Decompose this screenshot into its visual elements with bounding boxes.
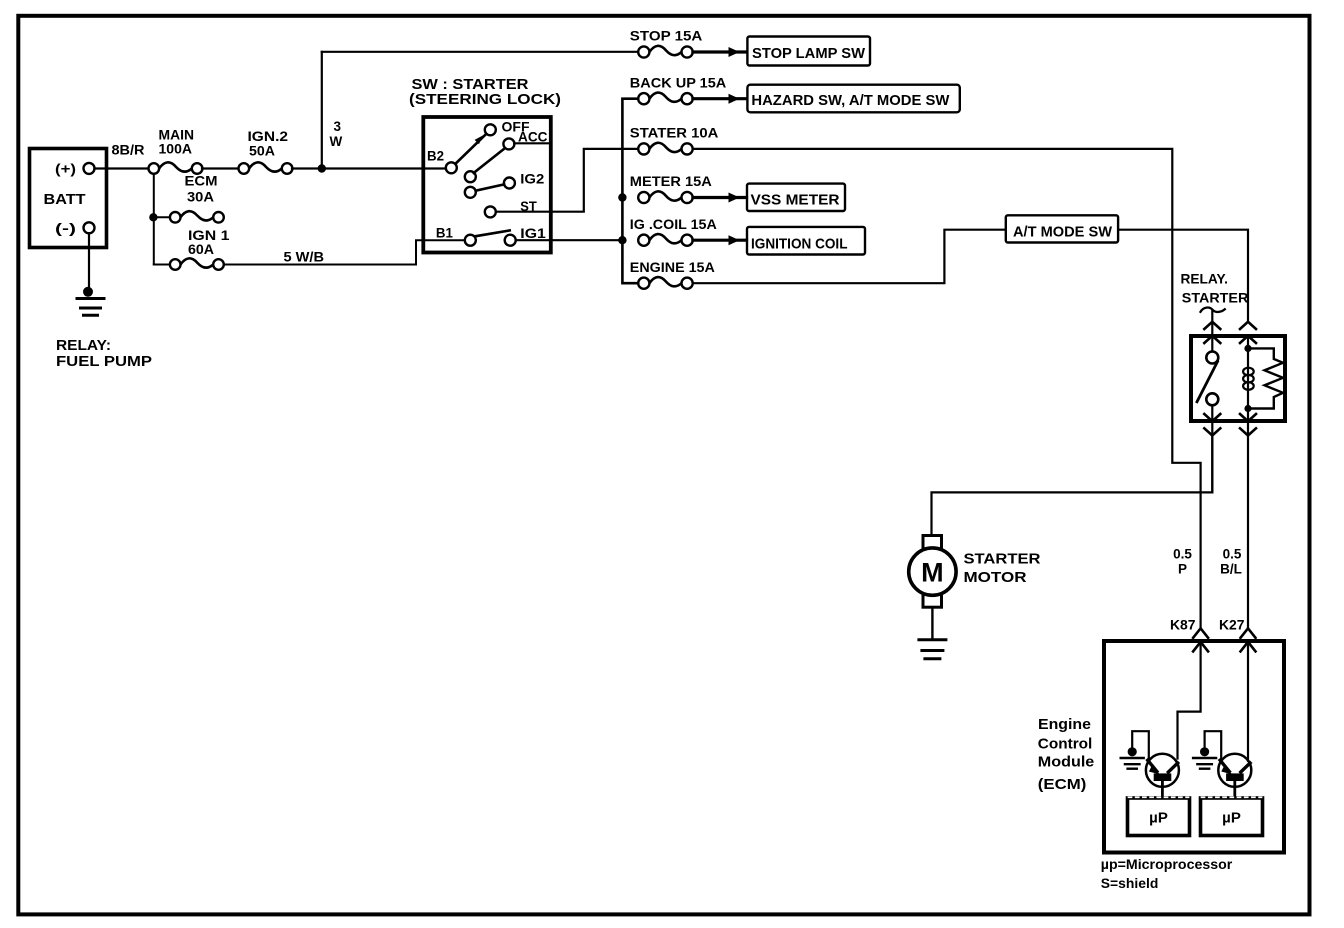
- svg-text:S=shield: S=shield: [1101, 875, 1159, 891]
- svg-text:RELAY:: RELAY:: [56, 337, 111, 354]
- svg-text:BATT: BATT: [44, 191, 86, 208]
- svg-text:µP: µP: [1149, 810, 1168, 827]
- svg-text:3: 3: [334, 119, 342, 134]
- svg-text:BACK UP 15A: BACK UP 15A: [630, 75, 727, 90]
- svg-text:B1: B1: [436, 226, 453, 241]
- svg-text:A/T MODE SW: A/T MODE SW: [1013, 224, 1113, 241]
- svg-text:M: M: [921, 558, 944, 588]
- svg-text:P: P: [1178, 562, 1187, 577]
- svg-text:ENGINE 15A: ENGINE 15A: [630, 260, 715, 275]
- svg-text:0.5: 0.5: [1173, 547, 1192, 562]
- svg-text:HAZARD SW, A/T MODE SW: HAZARD SW, A/T MODE SW: [751, 92, 950, 109]
- svg-text:STOP 15A: STOP 15A: [630, 29, 703, 44]
- svg-text:(ECM): (ECM): [1038, 776, 1087, 793]
- svg-text:Engine: Engine: [1038, 716, 1091, 733]
- svg-text:IG1: IG1: [520, 226, 546, 241]
- svg-text:µP: µP: [1222, 810, 1241, 827]
- svg-text:VSS METER: VSS METER: [751, 192, 840, 209]
- svg-text:IGNITION COIL: IGNITION COIL: [751, 236, 848, 253]
- svg-text:K27: K27: [1219, 617, 1245, 633]
- svg-text:50A: 50A: [249, 144, 275, 159]
- svg-text:µp=Microprocessor: µp=Microprocessor: [1101, 856, 1233, 872]
- svg-text:8B/R: 8B/R: [112, 143, 145, 158]
- svg-text:Module: Module: [1038, 754, 1095, 771]
- svg-text:STARTER: STARTER: [1182, 290, 1249, 306]
- svg-text:IG2: IG2: [520, 171, 544, 186]
- svg-text:MOTOR: MOTOR: [964, 569, 1027, 586]
- svg-text:Control: Control: [1038, 736, 1093, 753]
- svg-text:(+): (+): [55, 162, 76, 177]
- svg-text:B/L: B/L: [1220, 562, 1242, 577]
- svg-text:IG .COIL 15A: IG .COIL 15A: [630, 217, 717, 232]
- svg-text:0.5: 0.5: [1223, 547, 1242, 562]
- svg-text:ECM: ECM: [185, 174, 218, 189]
- svg-text:5 W/B: 5 W/B: [284, 250, 325, 265]
- svg-text:(STEERING LOCK): (STEERING LOCK): [409, 91, 561, 108]
- svg-text:RELAY.: RELAY.: [1181, 271, 1229, 287]
- svg-text:FUEL PUMP: FUEL PUMP: [56, 353, 152, 370]
- svg-text:MAIN: MAIN: [159, 128, 195, 143]
- svg-text:METER 15A: METER 15A: [630, 174, 712, 189]
- svg-text:(-): (-): [55, 221, 76, 236]
- svg-text:100A: 100A: [159, 142, 193, 157]
- svg-text:STARTER: STARTER: [964, 551, 1041, 568]
- svg-text:B2: B2: [427, 149, 444, 164]
- svg-text:K87: K87: [1170, 617, 1196, 633]
- svg-text:STATER 10A: STATER 10A: [630, 126, 719, 141]
- svg-text:30A: 30A: [187, 190, 214, 205]
- svg-text:STOP LAMP SW: STOP LAMP SW: [752, 45, 866, 62]
- svg-text:IGN 1: IGN 1: [188, 228, 230, 243]
- svg-text:IGN.2: IGN.2: [248, 129, 289, 144]
- svg-text:W: W: [330, 134, 343, 149]
- svg-text:60A: 60A: [188, 242, 214, 257]
